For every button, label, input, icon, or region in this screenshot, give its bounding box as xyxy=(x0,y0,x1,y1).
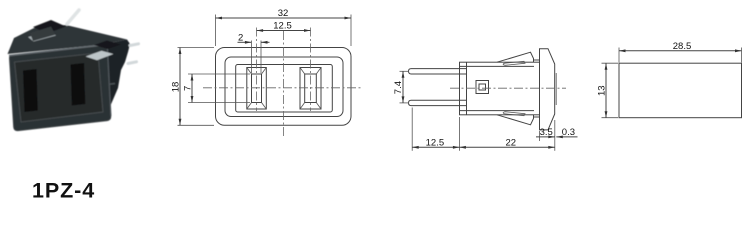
product photo flange front face xyxy=(9,45,111,131)
product photo socket right side face xyxy=(99,40,130,121)
svg-text:7: 7 xyxy=(182,86,193,91)
front view body rect xyxy=(236,65,333,113)
front view outer flange rect xyxy=(216,48,352,126)
svg-text:28.5: 28.5 xyxy=(673,41,692,52)
front view horizontal centerline xyxy=(203,87,363,89)
side view dimension 3.5 xyxy=(536,127,555,141)
side view top pin xyxy=(409,69,467,74)
top view dimension 13 xyxy=(596,63,618,117)
side view bottom pin xyxy=(409,100,467,105)
front view left slot centerline xyxy=(256,28,258,112)
svg-text:3.5: 3.5 xyxy=(540,127,553,138)
front view dimension 32 xyxy=(216,8,352,46)
side view inner square detail xyxy=(476,81,489,94)
product photo right wire pins xyxy=(128,44,139,64)
side view bottom latch wing xyxy=(497,112,540,125)
product photo left slot xyxy=(23,69,38,112)
top view dimension 28.5 xyxy=(619,41,742,63)
front view dimension 18 xyxy=(170,48,214,126)
svg-text:12.5: 12.5 xyxy=(426,138,445,149)
side view dimension 7.4 xyxy=(393,71,409,103)
front view left slot xyxy=(247,68,266,110)
svg-text:7.4: 7.4 xyxy=(393,81,404,94)
svg-text:22: 22 xyxy=(506,138,517,149)
svg-text:18: 18 xyxy=(170,82,181,93)
product photo left wire pin xyxy=(67,10,79,24)
svg-text:13: 13 xyxy=(596,85,607,96)
side view dimension 12.5 xyxy=(412,108,459,151)
product photo right slot xyxy=(71,63,86,106)
svg-text:12.5: 12.5 xyxy=(273,21,292,32)
top view rectangle xyxy=(619,63,742,117)
front view mid rect xyxy=(225,57,343,117)
product photo recessed panel xyxy=(15,53,104,122)
side view dimension 22 xyxy=(459,120,554,151)
side view top latch wing xyxy=(497,52,540,65)
svg-text:32: 32 xyxy=(278,8,289,19)
svg-text:0.3: 0.3 xyxy=(562,127,575,138)
side view dimension 0.3 xyxy=(556,127,577,138)
svg-text:1PZ-4: 1PZ-4 xyxy=(32,179,95,200)
front view vertical centerline xyxy=(282,31,284,138)
front view dimension 7 xyxy=(182,74,250,103)
svg-text:2: 2 xyxy=(238,33,243,44)
product photo left terminal block xyxy=(28,20,66,42)
front view dimension 12.5 xyxy=(257,21,311,32)
side view body xyxy=(460,62,540,115)
front view right slot xyxy=(300,68,321,110)
side view horizontal centerline xyxy=(450,87,566,89)
product photo right terminal block xyxy=(86,41,122,61)
front view right slot centerline xyxy=(310,28,312,112)
side view flange xyxy=(540,49,557,130)
front view dimension 2 xyxy=(238,33,270,74)
product photo socket top surface xyxy=(8,25,128,54)
